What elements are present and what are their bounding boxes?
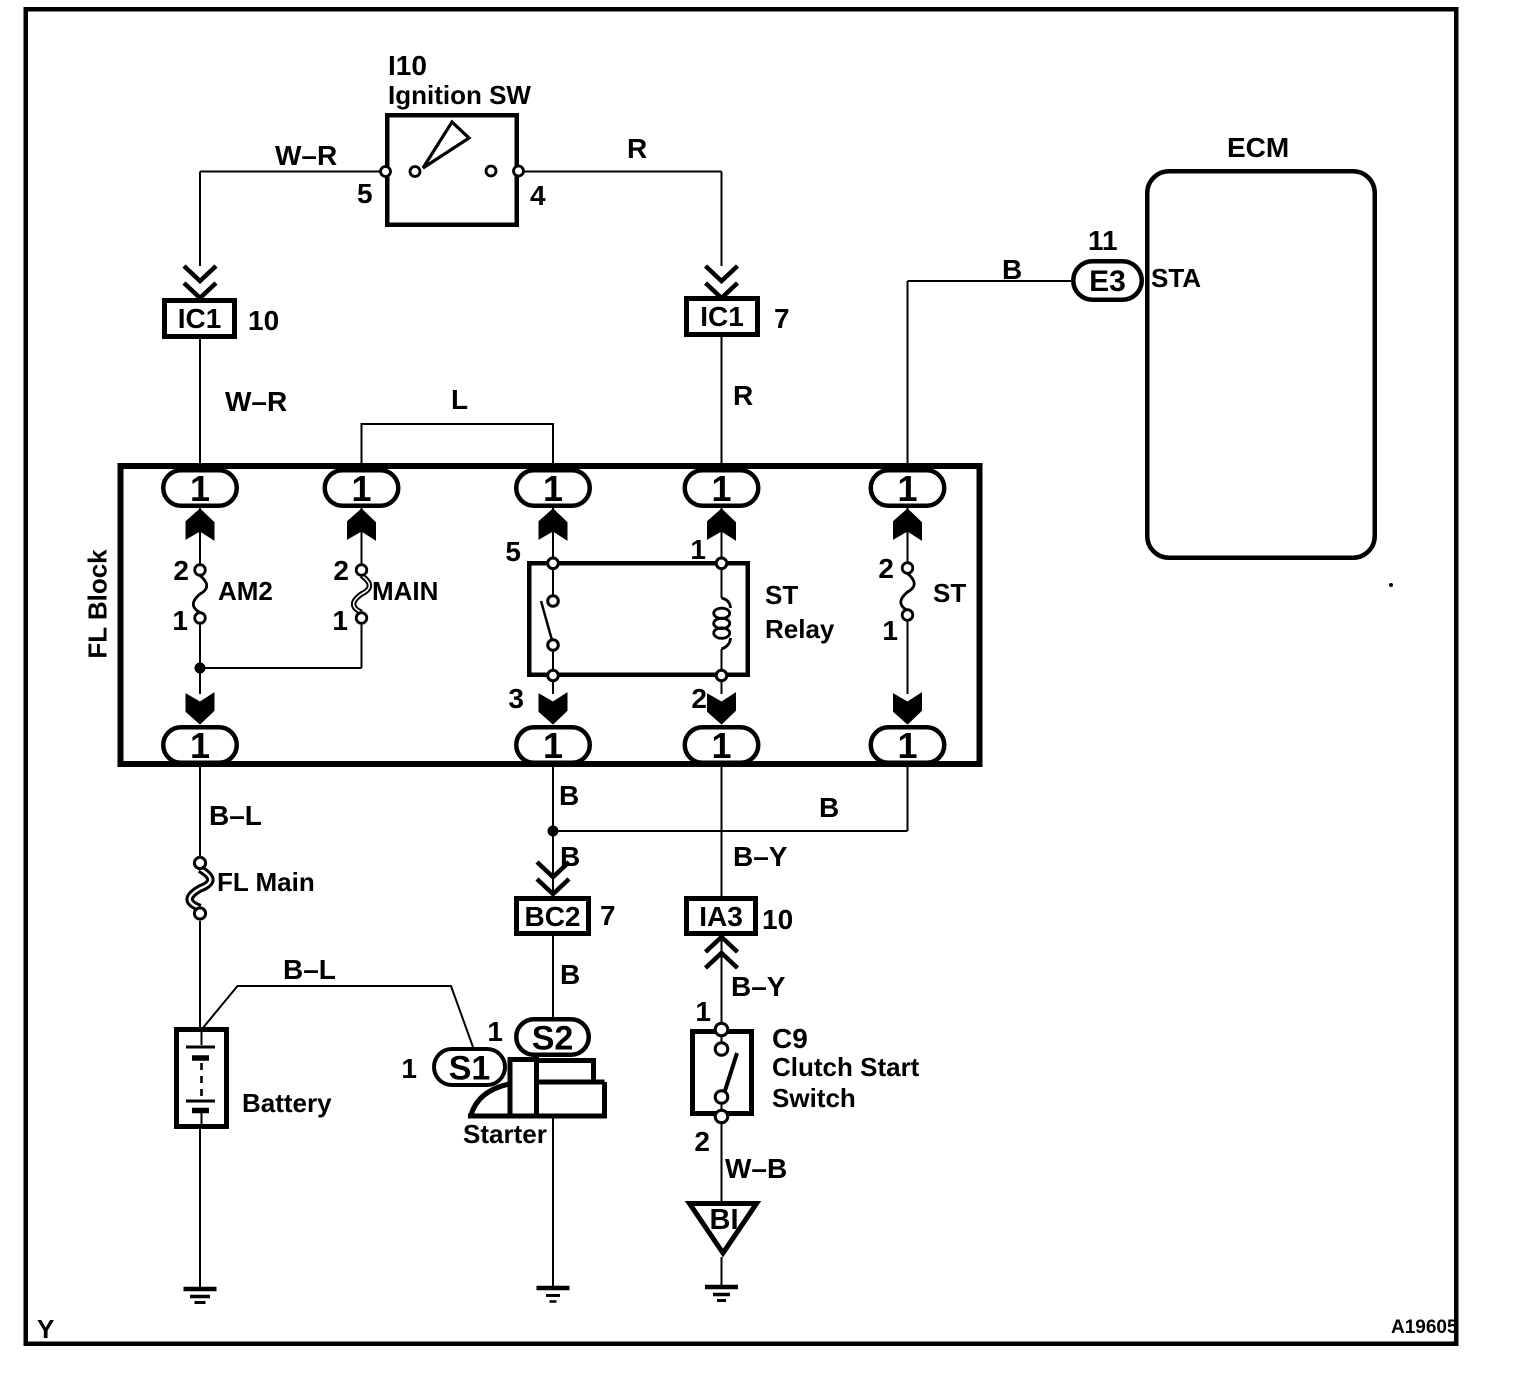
svg-text:Relay: Relay bbox=[765, 614, 835, 644]
svg-text:Clutch Start: Clutch Start bbox=[772, 1052, 920, 1082]
svg-text:Battery: Battery bbox=[242, 1088, 332, 1118]
svg-text:B: B bbox=[1002, 254, 1022, 285]
svg-text:7: 7 bbox=[774, 303, 790, 334]
svg-text:B–Y: B–Y bbox=[731, 971, 786, 1002]
svg-text:1: 1 bbox=[897, 725, 917, 766]
svg-text:W–R: W–R bbox=[275, 140, 337, 171]
svg-text:E3: E3 bbox=[1089, 265, 1126, 298]
svg-text:2: 2 bbox=[173, 555, 189, 586]
svg-text:B: B bbox=[559, 780, 579, 811]
svg-text:3: 3 bbox=[508, 683, 524, 714]
svg-text:W–B: W–B bbox=[725, 1153, 787, 1184]
svg-text:B–Y: B–Y bbox=[733, 841, 788, 872]
svg-text:ST: ST bbox=[933, 578, 966, 608]
svg-text:A19605: A19605 bbox=[1391, 1317, 1458, 1338]
svg-text:Y: Y bbox=[37, 1314, 54, 1344]
svg-text:ST: ST bbox=[765, 580, 798, 610]
svg-text:10: 10 bbox=[248, 305, 279, 336]
svg-text:1: 1 bbox=[190, 725, 210, 766]
svg-text:1: 1 bbox=[172, 605, 188, 636]
svg-text:B–L: B–L bbox=[283, 954, 336, 985]
svg-text:1: 1 bbox=[711, 468, 731, 509]
svg-text:IC1: IC1 bbox=[178, 303, 222, 334]
svg-text:1: 1 bbox=[401, 1053, 417, 1084]
svg-text:1: 1 bbox=[332, 605, 348, 636]
svg-text:B: B bbox=[819, 792, 839, 823]
svg-text:R: R bbox=[627, 133, 647, 164]
svg-text:1: 1 bbox=[690, 534, 706, 565]
svg-text:10: 10 bbox=[762, 904, 793, 935]
svg-text:W–R: W–R bbox=[225, 386, 287, 417]
svg-text:1: 1 bbox=[190, 468, 210, 509]
svg-text:C9: C9 bbox=[772, 1023, 808, 1054]
svg-text:B: B bbox=[560, 959, 580, 990]
svg-text:R: R bbox=[733, 380, 753, 411]
svg-text:2: 2 bbox=[333, 555, 349, 586]
svg-text:2: 2 bbox=[878, 553, 894, 584]
svg-text:11: 11 bbox=[1088, 225, 1118, 256]
svg-text:S1: S1 bbox=[449, 1050, 491, 1088]
svg-text:1: 1 bbox=[351, 468, 371, 509]
svg-text:Switch: Switch bbox=[772, 1083, 856, 1113]
svg-text:4: 4 bbox=[530, 180, 546, 211]
svg-text:1: 1 bbox=[882, 615, 898, 646]
svg-text:I10: I10 bbox=[388, 50, 427, 81]
svg-text:BI: BI bbox=[710, 1204, 739, 1236]
svg-text:S2: S2 bbox=[532, 1020, 574, 1058]
svg-text:FL Main: FL Main bbox=[217, 867, 315, 897]
svg-text:1: 1 bbox=[897, 468, 917, 509]
svg-text:IC1: IC1 bbox=[700, 301, 744, 332]
svg-text:BC2: BC2 bbox=[524, 901, 580, 932]
svg-text:Ignition SW: Ignition SW bbox=[388, 80, 531, 110]
svg-text:1: 1 bbox=[695, 996, 711, 1027]
svg-text:1: 1 bbox=[487, 1016, 503, 1047]
svg-text:STA: STA bbox=[1151, 263, 1201, 293]
svg-text:IA3: IA3 bbox=[699, 901, 743, 932]
svg-text:FL Block: FL Block bbox=[83, 549, 113, 659]
svg-text:2: 2 bbox=[691, 683, 707, 714]
svg-text:5: 5 bbox=[357, 178, 373, 209]
svg-text:5: 5 bbox=[505, 536, 521, 567]
svg-text:1: 1 bbox=[543, 468, 563, 509]
svg-text:2: 2 bbox=[694, 1126, 710, 1157]
svg-text:ECM: ECM bbox=[1227, 132, 1289, 163]
svg-text:1: 1 bbox=[711, 725, 731, 766]
svg-text:1: 1 bbox=[543, 725, 563, 766]
svg-text:AM2: AM2 bbox=[218, 576, 273, 606]
svg-text:B–L: B–L bbox=[209, 800, 262, 831]
svg-text:7: 7 bbox=[600, 900, 616, 931]
svg-text:MAIN: MAIN bbox=[372, 576, 438, 606]
svg-text:Starter: Starter bbox=[463, 1119, 547, 1149]
svg-text:L: L bbox=[451, 384, 468, 415]
